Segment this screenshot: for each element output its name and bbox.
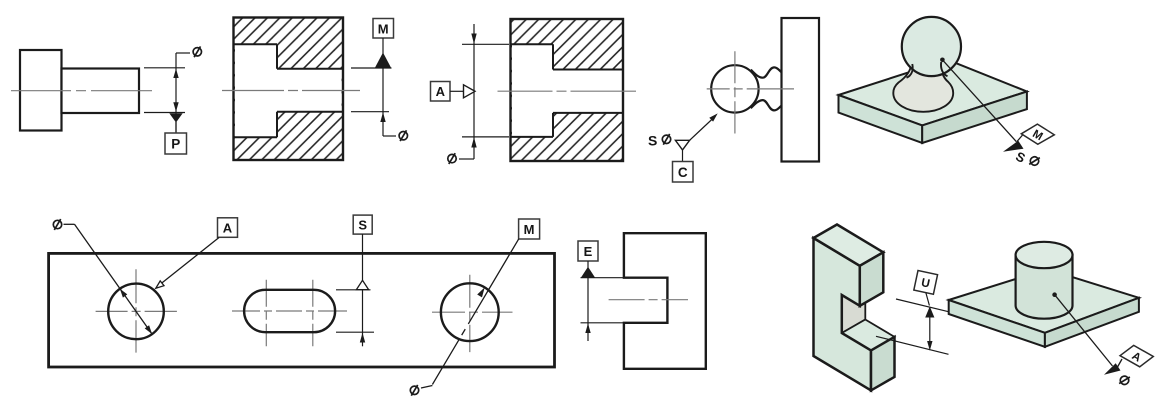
leader fig5 [942,60,1016,142]
dimension line fig1 [175,53,177,133]
M flag diamond [1021,124,1054,144]
crosshair circle2 vertical [469,275,471,352]
dimension line fig2 [382,68,384,136]
M box BL [519,219,540,239]
handle rectangle [782,18,820,162]
leader through circle1 [75,224,153,334]
plate right face [922,92,1027,144]
svg-text:M: M [378,21,389,36]
hole white fig3 [553,70,622,113]
counterbore white [235,44,277,137]
block outline [234,18,344,161]
slot crosshair vertical 1 [265,280,267,347]
counterbore white fig3 [512,44,553,137]
counterbore edges fig3 [512,44,554,137]
tick from phi BL2 [421,386,432,389]
datum triangle E filled [581,267,595,278]
crosshair circle2 horizontal [432,311,513,313]
cylinder top [1016,242,1073,268]
C box [673,162,694,183]
big arrow U [925,306,934,317]
crosshair vertical fig4 [734,51,736,133]
leader from A box [162,238,220,284]
bolt head [20,50,62,131]
A box fig3 [431,82,451,102]
diameter symbol fig3 [448,153,456,164]
arrow on leader in circle2 [477,287,485,297]
hole edges [277,69,342,112]
connector to M flag [1017,135,1023,142]
chord arrow lower [145,325,152,334]
bracket outline [624,233,706,369]
diameter symbol fig4 [662,134,670,145]
neck top edge [751,67,782,77]
svg-text:A: A [436,84,446,99]
stem from S box [362,234,364,281]
cylinder body [1016,255,1073,319]
tick from phi [64,223,75,225]
slot outline [244,290,335,332]
bolt shaft [62,69,140,114]
stem to P box [175,122,177,133]
dot on cylinder [1052,292,1057,297]
stem M [382,38,384,54]
svg-text:S: S [1013,149,1028,166]
extension line top fig2 [351,67,392,69]
notch inner wall [842,282,866,334]
sphere [902,17,961,76]
ext line bottom fig6 [581,322,630,324]
small up arrow S [360,333,365,343]
svg-text:P: P [171,137,180,152]
small up arrow fig6 [585,323,590,333]
upper ext line fig7 [896,299,949,312]
slot ext line top [336,289,371,291]
small down arrow fig7 [927,341,932,351]
centerline fig3 [498,90,637,92]
stem U [926,293,930,306]
leader arrowhead [709,113,717,121]
extension line top fig3 [462,43,509,45]
slot ext line bottom [336,331,374,333]
centerline fig6 [609,299,688,301]
counterbore edges [235,44,278,137]
small arrow down fig3 [471,34,476,44]
elbow to phi fig1 [176,52,190,54]
extension line bottom fig2 [351,111,389,113]
block body hatched [511,19,624,161]
block outline fig3 [511,19,624,161]
open datum triangle C [675,140,689,150]
datum target triangle P [169,113,182,122]
ext line top fig6 [581,277,630,279]
hole edges fig3 [553,70,622,113]
svg-text:A: A [223,221,233,236]
pedestal mound [893,62,953,112]
dim line fig6 [587,278,589,341]
diameter symbol fig2 [399,130,407,141]
svg-text:E: E [584,244,593,259]
circle 1 [108,284,164,340]
plate top face fig8 [949,269,1139,333]
M box fig2 [373,19,394,39]
plate left face [839,95,923,143]
centerline fig2 [222,90,360,92]
A flag diamond [1120,345,1153,366]
stem E [587,261,589,269]
bottom arm right face [871,337,895,391]
extension line top fig1 [144,67,185,69]
open datum triangle A [464,85,476,98]
crosshair circle1 horizontal [96,310,177,312]
lower ext line fig7 [876,336,949,354]
dim line fig7 [929,318,931,342]
slot crosshair horizontal [232,310,347,312]
open triangle S [356,280,368,289]
connector to A flag [1118,359,1123,367]
circle 2 [441,283,499,341]
dim arrow down fig1 [173,102,178,111]
hook left [907,64,913,78]
extension line bottom fig1 [144,112,185,114]
crosshair circle1 vertical [135,269,137,352]
A box BL [218,218,238,238]
long leader M-phi [432,239,518,385]
S-phi rotated fig5 [1013,148,1040,172]
slot crosshair vertical 2 [312,280,314,347]
front C face [814,238,872,390]
U flag [914,271,938,295]
svg-text:M: M [524,222,535,237]
leader to ball [690,119,712,140]
plate top face [839,60,1027,126]
chord arrow upper [120,289,127,298]
diameter symbol BL1 [53,219,61,230]
leader arrow fig5 [1003,141,1024,152]
small arrow up fig3 [471,137,476,147]
svg-text:S: S [358,218,367,233]
datum triangle M filled [375,53,391,68]
diameter symbol fig1 [193,46,201,57]
small arrow up fig2 [380,112,385,122]
line A to triangle [450,90,464,92]
leader arrow fig8 [1104,363,1121,375]
dim line below S triangle [362,290,364,347]
dim arrow up fig1 [173,69,178,78]
crosshair horizontal fig4 [707,88,794,90]
elbow fig3 [459,158,474,160]
hook right [941,62,947,76]
hole white [277,69,342,112]
block body hatched [234,18,344,161]
S box BL [353,215,372,234]
diameter symbol BL2 [410,385,418,396]
E box [578,241,598,261]
plate left face fig8 [949,300,1045,347]
svg-text:S: S [648,133,657,149]
centerline fig1 [11,90,152,92]
plate right face fig8 [1045,298,1139,347]
notch floor [842,320,895,351]
P box [165,133,187,154]
dimension line fig3 [473,24,475,159]
extension line bottom fig3 [462,136,509,138]
top arm right face [860,252,884,305]
stem C [682,150,684,162]
open triangle at circle1 [156,281,164,288]
dot on sphere [940,58,945,63]
elbow fig2 [383,135,396,137]
svg-text:C: C [678,165,688,180]
top face [814,225,884,266]
plate outline [49,253,555,367]
diameter symbol fig8 rotated [1118,374,1130,387]
leader fig8 [1055,295,1113,366]
neck bottom edge [751,100,782,110]
ball circle [711,65,758,112]
